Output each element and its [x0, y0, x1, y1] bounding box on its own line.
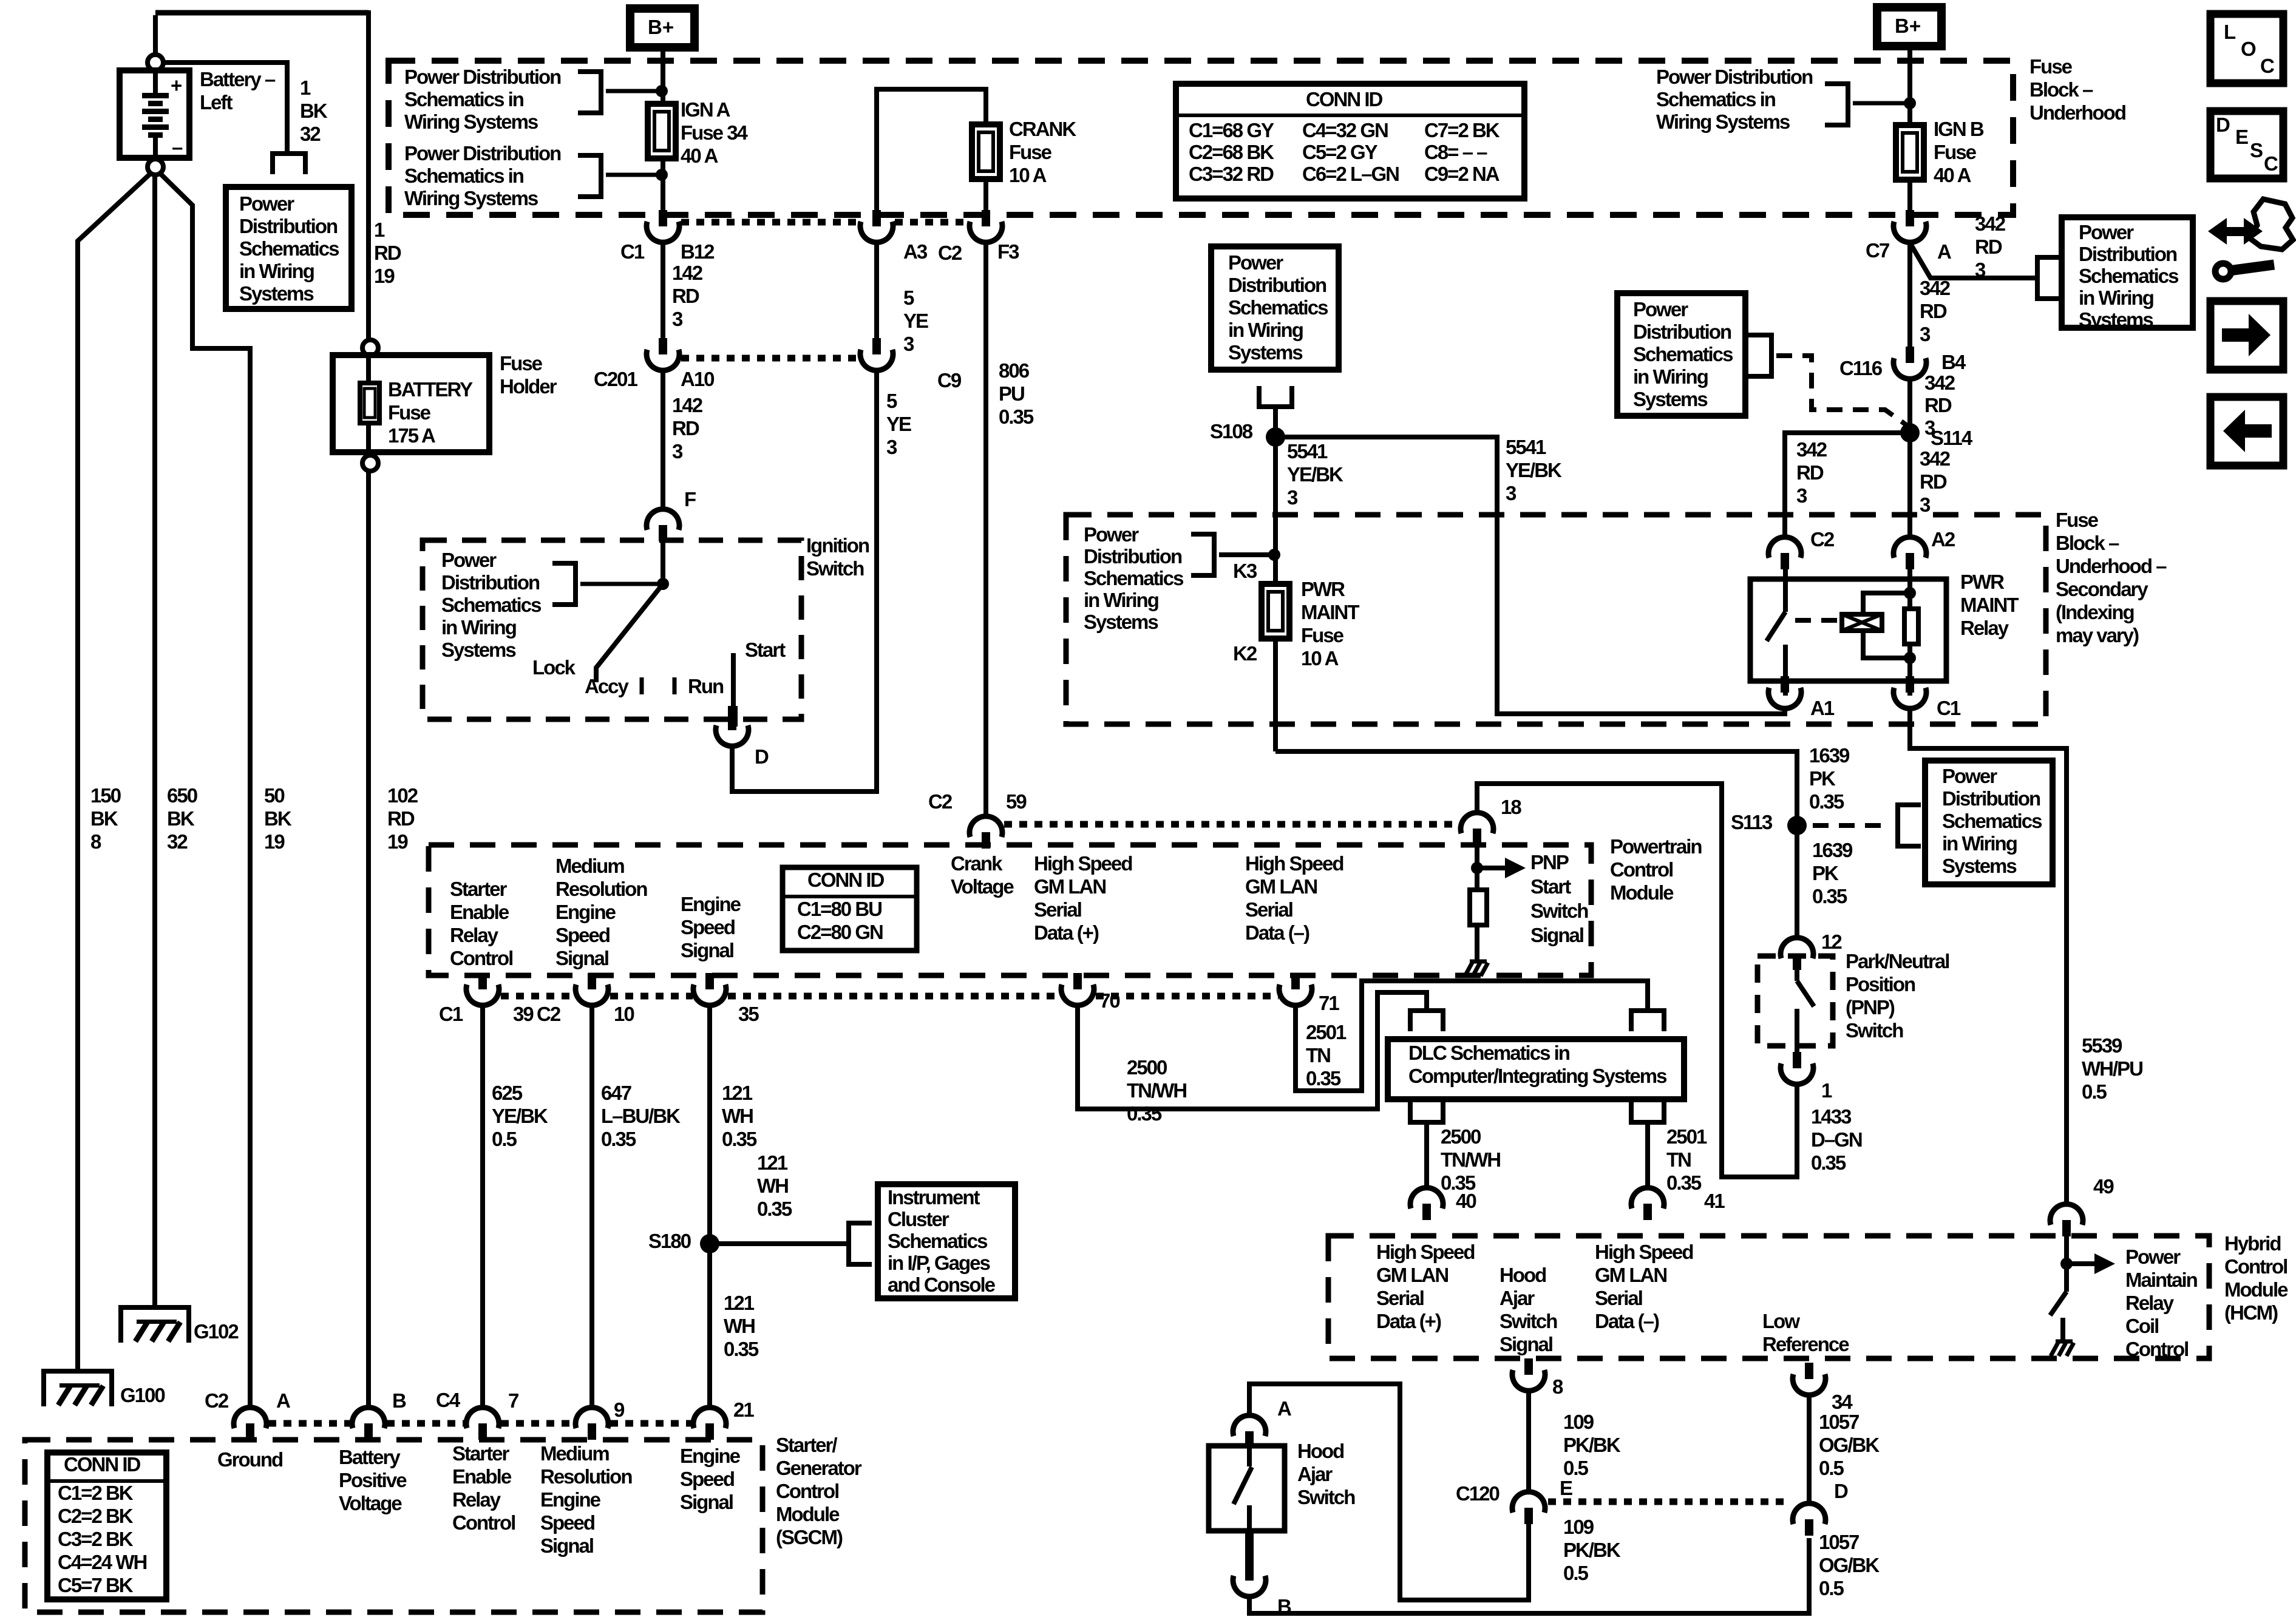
- svg-text:7: 7: [508, 1389, 518, 1412]
- svg-text:TN/WH: TN/WH: [1441, 1148, 1500, 1171]
- wire battery positive top bus: [153, 15, 158, 55]
- svg-text:IGN B: IGN B: [1934, 118, 1984, 140]
- svg-text:Reference: Reference: [1762, 1333, 1849, 1355]
- svg-text:B12: B12: [681, 240, 715, 263]
- svg-text:0.35: 0.35: [1127, 1102, 1162, 1125]
- svg-text:625: 625: [492, 1082, 523, 1104]
- dashed reference line to C116: [1776, 356, 1906, 425]
- dashed box Ignition Switch: [423, 540, 801, 719]
- connector 34 HCM low reference: [1805, 1363, 1813, 1379]
- svg-text:Distribution: Distribution: [239, 215, 338, 237]
- svg-text:RD: RD: [387, 807, 415, 830]
- svg-text:3: 3: [1920, 323, 1931, 345]
- svg-text:Accy: Accy: [585, 675, 630, 697]
- svg-text:121: 121: [722, 1082, 753, 1104]
- svg-text:Serial: Serial: [1034, 898, 1081, 921]
- svg-text:Switch: Switch: [1530, 900, 1588, 922]
- svg-text:C2: C2: [537, 1003, 561, 1025]
- connector C9: [872, 338, 881, 354]
- svg-text:S113: S113: [1731, 811, 1773, 833]
- svg-text:TN: TN: [1666, 1148, 1691, 1171]
- svg-text:Schematics: Schematics: [1084, 567, 1183, 589]
- splice S180: [700, 1234, 719, 1253]
- svg-text:Module: Module: [1610, 881, 1674, 904]
- svg-text:Systems: Systems: [1633, 388, 1707, 410]
- svg-text:D: D: [1834, 1480, 1848, 1502]
- svg-text:C5=2 GY: C5=2 GY: [1302, 141, 1378, 163]
- wire S108 down through PWR MAINT fuse to S113 bus: [1273, 437, 1278, 751]
- svg-text:175 A: 175 A: [388, 424, 435, 447]
- relay internal resistor: [1904, 609, 1918, 644]
- svg-text:Power: Power: [1084, 523, 1139, 546]
- wire PWR MAINT K2 to S113: [1275, 751, 1797, 938]
- svg-text:Voltage: Voltage: [951, 875, 1014, 898]
- wire 8 to C120 E: [1526, 1390, 1531, 1494]
- fuse IGN B Fuse 40 A: [1896, 125, 1924, 180]
- svg-text:Distribution: Distribution: [441, 571, 540, 594]
- svg-text:Powertrain: Powertrain: [1610, 835, 1702, 858]
- page bracket S180: [846, 1221, 851, 1267]
- svg-text:C9=2 NA: C9=2 NA: [1424, 163, 1500, 185]
- dotted line 39-10: [501, 993, 575, 1000]
- svg-text:C1: C1: [1937, 697, 1961, 719]
- svg-text:32: 32: [167, 830, 188, 853]
- ignition contact tick Run: [673, 677, 677, 694]
- fuse CRANK Fuse 10 A: [972, 124, 1000, 179]
- svg-text:RD: RD: [1796, 461, 1824, 484]
- svg-text:Secondary: Secondary: [2056, 578, 2148, 600]
- svg-text:CRANK: CRANK: [1009, 118, 1076, 140]
- svg-text:Engine: Engine: [540, 1488, 601, 1511]
- connector B hood ajar switch: [1245, 1531, 1254, 1580]
- svg-text:Hood: Hood: [1500, 1264, 1546, 1286]
- wire 121 WH 35 to S180 to SGCM 21: [707, 1005, 712, 1408]
- svg-text:RD: RD: [374, 242, 401, 264]
- svg-text:121: 121: [757, 1151, 788, 1174]
- wire 5 YE C9 down to ignition D loop: [732, 370, 877, 792]
- svg-text:1639: 1639: [1809, 744, 1850, 767]
- page bracket to IGN A feed 2: [599, 153, 603, 199]
- svg-text:Schematics in: Schematics in: [404, 88, 524, 110]
- svg-text:+: +: [171, 74, 182, 97]
- svg-text:Signal: Signal: [1530, 924, 1583, 946]
- svg-text:IGN A: IGN A: [681, 98, 730, 121]
- dotted line C120 E-D: [1548, 1499, 1791, 1505]
- svg-text:Holder: Holder: [500, 375, 557, 398]
- fuse IGN A Fuse 34 40 A: [648, 104, 676, 158]
- PNP start switch signal circuit in PCM: [1475, 845, 1479, 890]
- svg-text:1: 1: [1821, 1079, 1832, 1102]
- page connector DLC data+ top: [1408, 1008, 1445, 1013]
- svg-text:PWR: PWR: [1301, 578, 1345, 600]
- relay actuator dashed link: [1795, 618, 1838, 623]
- svg-text:Speed: Speed: [555, 924, 610, 946]
- svg-text:Cluster: Cluster: [888, 1208, 949, 1230]
- wire B+ to IGN A fuse: [661, 47, 665, 212]
- svg-text:Switch: Switch: [1846, 1019, 1903, 1042]
- svg-text:Ajar: Ajar: [1297, 1463, 1333, 1485]
- box Power Distribution Schematics in Wiring Systems (S113): [1925, 761, 2053, 884]
- ring terminal fuse holder top: [362, 340, 378, 356]
- svg-text:Block –: Block –: [2056, 532, 2119, 554]
- svg-text:34: 34: [1832, 1391, 1853, 1413]
- svg-text:C3=32 RD: C3=32 RD: [1189, 163, 1274, 185]
- svg-text:0.35: 0.35: [1666, 1171, 1702, 1194]
- svg-text:OG/BK: OG/BK: [1819, 1554, 1880, 1576]
- svg-text:A10: A10: [681, 368, 714, 390]
- junction dot ignition pivot: [657, 578, 669, 590]
- svg-text:BK: BK: [167, 807, 195, 830]
- svg-text:Control: Control: [2224, 1255, 2287, 1278]
- relay box PWR MAINT Relay: [1750, 579, 1946, 681]
- svg-text:A: A: [1277, 1397, 1291, 1420]
- svg-text:C: C: [2260, 55, 2274, 77]
- svg-text:3: 3: [1287, 486, 1298, 509]
- svg-text:5: 5: [886, 390, 897, 412]
- svg-text:3: 3: [672, 440, 683, 463]
- svg-text:Schematics: Schematics: [239, 237, 339, 260]
- ground PCM internal: [1470, 960, 1487, 964]
- svg-text:K2: K2: [1233, 642, 1257, 665]
- svg-text:C7=2 BK: C7=2 BK: [1424, 119, 1500, 141]
- svg-text:C1: C1: [439, 1003, 463, 1025]
- svg-text:C4=32 GN: C4=32 GN: [1302, 119, 1388, 141]
- svg-text:Computer/Integrating Systems: Computer/Integrating Systems: [1408, 1065, 1666, 1087]
- svg-text:YE: YE: [886, 413, 911, 435]
- box Hood Ajar Switch: [1209, 1446, 1285, 1531]
- wire 2501 TN 71 to DLC: [1296, 981, 1648, 1091]
- svg-text:Distribution: Distribution: [1942, 787, 2040, 810]
- svg-text:Underhood –: Underhood –: [2056, 555, 2167, 577]
- svg-text:Systems: Systems: [1228, 341, 1302, 364]
- svg-text:32: 32: [300, 123, 321, 145]
- svg-text:Power: Power: [441, 549, 497, 571]
- wire resistor to ground: [1475, 925, 1479, 960]
- connector D ignition output: [728, 714, 736, 730]
- connector 21 SGCM: [705, 1423, 714, 1440]
- svg-text:0.35: 0.35: [1811, 1151, 1846, 1174]
- svg-text:C: C: [2264, 152, 2278, 175]
- svg-text:Switch: Switch: [1500, 1310, 1557, 1332]
- svg-text:C4=24 WH: C4=24 WH: [58, 1551, 146, 1573]
- dashed box Powertrain Control Module: [429, 845, 1591, 975]
- svg-text:Relay: Relay: [1960, 617, 2009, 639]
- svg-text:Power: Power: [1228, 251, 1283, 274]
- svg-text:Signal: Signal: [1500, 1333, 1552, 1355]
- svg-text:C2=2 BK: C2=2 BK: [58, 1505, 134, 1527]
- wire battery negative branch to SGCM ground pin A: [159, 172, 250, 1408]
- svg-text:C9: C9: [937, 369, 962, 392]
- svg-text:Hood: Hood: [1297, 1440, 1343, 1462]
- wire DLC to HCM 41: [1645, 1122, 1650, 1188]
- svg-text:E: E: [2235, 126, 2248, 148]
- box Power Distribution Schematics in Wiring Systems (battery feed): [226, 187, 352, 309]
- svg-text:PK/BK: PK/BK: [1563, 1539, 1621, 1561]
- svg-text:1057: 1057: [1819, 1531, 1859, 1553]
- page bracket C7 branch: [2035, 255, 2040, 301]
- svg-text:PK: PK: [1812, 862, 1839, 884]
- svg-text:3: 3: [886, 436, 897, 458]
- ignition switch blade to Lock: [596, 584, 663, 682]
- box Instrument Cluster Schematics in I/P Gages and Console: [878, 1184, 1015, 1298]
- splice S114: [1900, 423, 1920, 442]
- connector 9 SGCM: [588, 1423, 596, 1440]
- svg-text:0.5: 0.5: [492, 1128, 517, 1150]
- svg-text:G102: G102: [194, 1320, 239, 1343]
- svg-text:Low: Low: [1762, 1310, 1800, 1332]
- wire S114 branch left to relay C2: [1785, 433, 1910, 538]
- svg-text:0.5: 0.5: [1819, 1577, 1844, 1599]
- svg-text:39: 39: [513, 1003, 534, 1025]
- svg-text:E: E: [1560, 1477, 1572, 1499]
- svg-text:Speed: Speed: [681, 916, 735, 938]
- page connector DLC data- top: [1629, 1008, 1666, 1013]
- icon box LOC: [2210, 14, 2283, 83]
- svg-text:342: 342: [1975, 212, 2006, 235]
- ignition Start contact: [731, 653, 736, 706]
- wire bracket to S108: [1273, 407, 1278, 429]
- PNP switch blade: [1795, 970, 1799, 981]
- svg-text:in I/P, Gages: in I/P, Gages: [888, 1252, 990, 1274]
- fuse holder box: [333, 355, 489, 452]
- svg-text:0.35: 0.35: [601, 1128, 636, 1150]
- svg-text:71: 71: [1319, 992, 1339, 1014]
- svg-text:L–BU/BK: L–BU/BK: [601, 1105, 681, 1127]
- page bracket C116 reference: [1769, 333, 1774, 379]
- svg-text:Control: Control: [450, 947, 512, 969]
- svg-text:0.5: 0.5: [2082, 1080, 2107, 1103]
- wire C116 to S114: [1907, 378, 1912, 433]
- wire PNP 1 to PCM 18 loop: [1477, 784, 1797, 1177]
- connector 12 PNP switch: [1793, 954, 1801, 970]
- svg-text:35: 35: [738, 1003, 759, 1025]
- svg-text:Distribution: Distribution: [1633, 320, 1731, 343]
- svg-text:Schematics: Schematics: [441, 594, 541, 616]
- relay coil wiring: [1907, 569, 1912, 609]
- svg-text:19: 19: [374, 265, 395, 287]
- svg-text:F: F: [684, 488, 696, 510]
- PCM pull-down resistor: [1470, 890, 1487, 925]
- svg-text:WH: WH: [757, 1175, 788, 1197]
- svg-text:Data (+): Data (+): [1034, 921, 1099, 944]
- svg-text:5539: 5539: [2082, 1034, 2122, 1057]
- svg-text:Systems: Systems: [441, 639, 515, 661]
- svg-text:PK/BK: PK/BK: [1563, 1434, 1621, 1456]
- connector F ignition switch: [659, 525, 667, 541]
- svg-text:and Console: and Console: [888, 1273, 996, 1296]
- svg-text:in Wiring: in Wiring: [1228, 319, 1303, 341]
- svg-text:S114: S114: [1931, 427, 1973, 449]
- svg-text:0.35: 0.35: [999, 405, 1034, 428]
- svg-text:40: 40: [1456, 1190, 1476, 1212]
- connector 35 PCM: [705, 973, 714, 989]
- svg-text:GM LAN: GM LAN: [1376, 1264, 1448, 1286]
- dashed box Starter/Generator Control Module: [25, 1440, 763, 1612]
- svg-text:C2=68 BK: C2=68 BK: [1189, 141, 1274, 163]
- page connector DLC data+ bottom: [1408, 1120, 1445, 1125]
- svg-text:Distribution: Distribution: [1084, 545, 1182, 568]
- svg-text:Position: Position: [1846, 973, 1915, 995]
- svg-text:(SGCM): (SGCM): [776, 1526, 843, 1548]
- svg-text:19: 19: [264, 830, 285, 853]
- svg-text:C2: C2: [938, 242, 962, 264]
- svg-text:RD: RD: [1924, 394, 1952, 416]
- svg-text:Instrument: Instrument: [888, 1186, 980, 1209]
- connector 70 PCM: [1073, 973, 1082, 989]
- svg-text:Engine: Engine: [680, 1445, 741, 1467]
- svg-text:1: 1: [300, 76, 311, 99]
- connector 49 HCM: [2062, 1220, 2071, 1236]
- svg-text:Control: Control: [1610, 858, 1673, 881]
- svg-text:5: 5: [903, 286, 914, 309]
- svg-text:Medium: Medium: [540, 1442, 609, 1465]
- svg-text:Power: Power: [1633, 298, 1688, 320]
- wire 2500 TN/WH 70 to DLC: [1078, 992, 1427, 1109]
- connector C2 pin A SGCM ground: [246, 1423, 254, 1440]
- svg-text:WH: WH: [724, 1315, 755, 1337]
- svg-text:in Wiring: in Wiring: [1633, 365, 1708, 388]
- svg-text:Power: Power: [239, 192, 294, 215]
- svg-text:Maintain: Maintain: [2125, 1269, 2198, 1291]
- wire 806 PU F3 down to PCM 59: [983, 242, 988, 818]
- svg-text:A: A: [1937, 240, 1951, 263]
- svg-text:Generator: Generator: [776, 1457, 862, 1479]
- svg-text:102: 102: [387, 784, 418, 807]
- ring terminal battery positive: [148, 55, 163, 70]
- svg-text:Crank: Crank: [951, 852, 1003, 875]
- svg-text:18: 18: [1501, 796, 1521, 818]
- svg-text:D: D: [2216, 114, 2230, 136]
- page bracket to IGN A feed 1: [599, 69, 603, 115]
- svg-text:806: 806: [999, 359, 1030, 382]
- CONN ID table PCM: [783, 867, 917, 951]
- svg-text:Wiring Systems: Wiring Systems: [404, 187, 538, 209]
- svg-text:C116: C116: [1839, 357, 1883, 379]
- svg-text:Start: Start: [1530, 875, 1571, 898]
- ring terminal battery negative: [148, 159, 163, 175]
- wire DLC to HCM 40: [1424, 1122, 1429, 1188]
- svg-text:–: –: [172, 136, 183, 158]
- connector A1 relay: [1781, 676, 1789, 693]
- svg-text:342: 342: [1920, 447, 1951, 470]
- svg-text:C1=68 GY: C1=68 GY: [1189, 119, 1274, 141]
- svg-text:3: 3: [1506, 482, 1517, 504]
- CONN ID table (fuse block underhood): [1176, 84, 1524, 198]
- svg-text:Enable: Enable: [450, 901, 509, 923]
- dotted line 35-70: [728, 993, 1061, 1000]
- wire 102 RD 19 down to SGCM pin B: [366, 471, 371, 1408]
- dotted connector line 59-18: [1004, 821, 1459, 828]
- svg-text:C1=80 BU: C1=80 BU: [797, 898, 881, 920]
- svg-text:OG/BK: OG/BK: [1819, 1434, 1880, 1456]
- box Power Distribution Schematics in Wiring Systems (top right): [2062, 217, 2193, 328]
- icon box DESC: [2210, 111, 2283, 178]
- svg-text:Serial: Serial: [1245, 898, 1292, 921]
- connector C7 pin A (IGN B output): [1906, 210, 1914, 226]
- svg-text:A3: A3: [903, 240, 928, 263]
- svg-text:Fuse 34: Fuse 34: [681, 121, 749, 144]
- battery B1 - Battery Left: [120, 70, 189, 158]
- svg-text:Park/Neutral: Park/Neutral: [1846, 950, 1949, 972]
- dotted line B-C4 SGCM: [387, 1420, 466, 1427]
- connector 39 PCM: [478, 973, 487, 989]
- svg-text:Speed: Speed: [540, 1511, 594, 1534]
- svg-text:3: 3: [1920, 493, 1931, 516]
- svg-text:Hybrid: Hybrid: [2224, 1232, 2281, 1255]
- svg-text:L: L: [2224, 21, 2236, 43]
- svg-text:Power Distribution: Power Distribution: [404, 66, 561, 88]
- svg-text:Coil: Coil: [2125, 1315, 2158, 1337]
- wire 142 RD to C201: [661, 242, 665, 338]
- svg-text:2501: 2501: [1306, 1021, 1347, 1043]
- fuse BATTERY Fuse 175 A: [366, 356, 371, 452]
- connector C116 pin B4: [1906, 347, 1914, 363]
- svg-text:Data (–): Data (–): [1245, 921, 1309, 944]
- svg-text:C2: C2: [205, 1389, 229, 1412]
- connector C4 pin 7 SGCM: [478, 1423, 487, 1440]
- svg-text:3: 3: [672, 308, 683, 330]
- connector C1 pin B12: [659, 210, 667, 226]
- svg-text:MAINT: MAINT: [1960, 594, 2019, 616]
- svg-text:Signal: Signal: [555, 947, 608, 969]
- svg-text:Starter/: Starter/: [776, 1434, 837, 1456]
- svg-text:C4: C4: [436, 1389, 461, 1411]
- svg-text:Schematics: Schematics: [1228, 296, 1328, 319]
- ring terminal fuse holder bottom: [362, 455, 378, 471]
- splice S113: [1787, 816, 1807, 835]
- svg-text:RD: RD: [1975, 236, 2002, 258]
- svg-text:Control: Control: [2125, 1338, 2188, 1360]
- svg-text:in Wiring: in Wiring: [1942, 832, 2017, 855]
- svg-text:0.5: 0.5: [1819, 1457, 1844, 1479]
- svg-text:C6=2 L–GN: C6=2 L–GN: [1302, 163, 1399, 185]
- svg-text:C120: C120: [1456, 1482, 1500, 1505]
- svg-text:0.35: 0.35: [757, 1198, 792, 1220]
- svg-text:Fuse: Fuse: [1009, 141, 1052, 163]
- svg-text:High Speed: High Speed: [1034, 852, 1132, 875]
- svg-text:RD: RD: [672, 285, 699, 307]
- svg-text:D–GN: D–GN: [1811, 1128, 1862, 1151]
- svg-text:WH/PU: WH/PU: [2082, 1057, 2142, 1080]
- svg-text:A: A: [276, 1389, 290, 1412]
- svg-text:0.35: 0.35: [722, 1128, 757, 1150]
- svg-text:Schematics: Schematics: [888, 1230, 987, 1252]
- wire 142 RD to ignition switch F: [661, 370, 665, 510]
- svg-text:650: 650: [167, 784, 197, 807]
- dotted line 7-9 SGCM: [501, 1420, 575, 1427]
- svg-text:Signal: Signal: [540, 1534, 593, 1557]
- svg-text:S: S: [2250, 139, 2263, 161]
- svg-text:Block –: Block –: [2029, 78, 2093, 101]
- page connector below box to S108: [1257, 404, 1294, 409]
- box DLC Schematics in Computer/Integrating Systems: [1388, 1039, 1684, 1099]
- svg-text:YE/BK: YE/BK: [1506, 459, 1562, 481]
- wire 34 to C120 D: [1807, 1394, 1812, 1505]
- B+ terminal right: [1877, 7, 1941, 46]
- relay coil: [1842, 614, 1882, 631]
- svg-text:Ignition: Ignition: [806, 534, 869, 557]
- svg-text:YE/BK: YE/BK: [492, 1105, 548, 1127]
- svg-text:WH: WH: [722, 1105, 753, 1127]
- svg-text:Systems: Systems: [1084, 611, 1158, 633]
- svg-text:PK: PK: [1809, 767, 1836, 790]
- svg-text:CONN ID: CONN ID: [1306, 88, 1383, 110]
- connector A3: [872, 210, 881, 226]
- dotted connector line C1-A3: [681, 219, 858, 226]
- svg-text:0.35: 0.35: [1812, 885, 1847, 907]
- svg-text:C201: C201: [594, 368, 638, 390]
- ground G102: [118, 1305, 191, 1310]
